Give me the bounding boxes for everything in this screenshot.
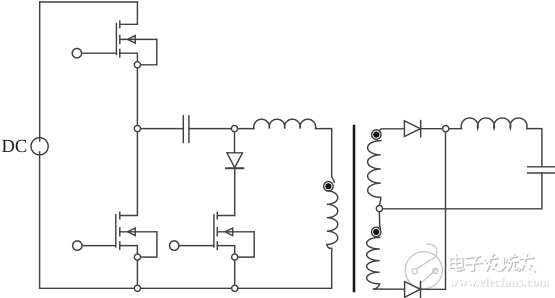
transistor Q1 (high-side MOSFET) <box>72 2 157 65</box>
lower winding humps <box>367 237 380 289</box>
Q2 gate plate <box>115 215 117 247</box>
Q2 source wire to bottom rail <box>136 260 138 285</box>
wire half-bridge node to capacitor C1 <box>141 128 184 130</box>
upper winding humps <box>368 141 381 206</box>
svg-text:www.elecfans.com: www.elecfans.com <box>449 275 550 289</box>
Q2 drain wire from half-bridge node <box>120 131 138 215</box>
transformer T1 primary winding <box>324 182 338 289</box>
inductor L2 (output filter) <box>461 118 527 129</box>
wire capacitor C1 to node B <box>189 128 232 130</box>
Q1 channel segments <box>119 21 121 28</box>
Q2 gate terminal circle <box>73 241 82 250</box>
wire inductor L2 to capacitor C2 <box>527 129 542 167</box>
Q3 source lead <box>217 246 234 254</box>
wire capacitor C2 to center tap return <box>383 173 542 209</box>
Q2 gate lead <box>82 245 116 247</box>
node half-bridge midpoint (Q1 source junction) <box>134 62 140 68</box>
wire diode D1 to output node <box>421 128 443 130</box>
wire bottom rail <box>40 287 331 289</box>
Q2 source lead <box>120 246 138 254</box>
Q3 channel segments <box>216 212 218 219</box>
transformer T1 secondary upper polarity dot <box>373 132 379 138</box>
Q1 gate terminal circle <box>72 49 81 58</box>
wire Q1 source to half-bridge node <box>136 68 138 125</box>
Q3 gate lead <box>179 245 214 247</box>
transformer T1 secondary lower polarity dot <box>373 229 379 235</box>
capacitor C2 plates <box>528 166 555 168</box>
wire primary bottom to bottom rail <box>331 249 333 289</box>
transistor Q2 (low-side MOSFET left) <box>73 131 157 285</box>
node B right of capacitor C1 <box>231 126 237 132</box>
Q3 gate terminal circle <box>170 241 179 250</box>
primary winding humps <box>327 191 338 249</box>
diode D2 cathode bar <box>420 281 422 297</box>
node Q3 source junction <box>232 254 238 260</box>
node Q3 bottom rail junction <box>232 285 238 291</box>
Q1 body lead with arrow <box>120 38 157 40</box>
Q1 gate lead <box>82 52 117 54</box>
Q1 body return wire to source <box>141 39 157 64</box>
Q3 drain lead <box>217 215 234 217</box>
diode D3 cathode bar <box>226 167 243 169</box>
capacitor C1 plates <box>182 116 184 143</box>
diode D2 (output rectifier bottom) <box>405 282 421 298</box>
transformer T1 primary polarity dot <box>325 183 331 189</box>
transistor Q3 (low-side MOSFET right) <box>170 212 255 285</box>
wire center tap to lower winding <box>379 212 380 230</box>
Q1 gate plate <box>115 24 117 55</box>
inductor L1 (resonant inductor) <box>254 119 316 128</box>
diode D1 (output rectifier top) <box>404 121 420 137</box>
Q3 body return wire to source <box>238 232 254 257</box>
transformer T1 secondary upper winding <box>368 129 405 206</box>
wire inductor L1 to transformer primary <box>316 129 335 183</box>
watermark logo circle <box>405 244 442 288</box>
Q3 body lead with arrow <box>217 231 254 233</box>
Q2 body return wire to source <box>141 232 157 257</box>
wire top rail <box>40 1 138 3</box>
node output (D1 cathode junction) <box>443 126 449 132</box>
diode D3 triangle <box>227 153 243 168</box>
node transformer center tap <box>376 206 382 212</box>
wire lower winding to diode D2 <box>374 288 405 290</box>
diode D3 (clamp diode) wire from node B <box>234 131 236 152</box>
wire node B to inductor L1 <box>238 128 254 130</box>
diode D1 cathode bar <box>420 121 422 137</box>
wire diode D3 to Q3 drain <box>234 168 236 215</box>
wire left side from DC source to bottom rail <box>39 152 41 288</box>
wire output node to inductor L2 <box>449 128 462 130</box>
Q2 channel segments <box>119 212 121 219</box>
secondary top wire with entry curl <box>380 129 405 132</box>
Q3 source wire to bottom rail <box>234 260 236 285</box>
wire diode D2 branch (cathode riser to output node) <box>421 132 446 289</box>
node Q2 source junction <box>134 254 140 260</box>
Q3 gate plate <box>213 215 215 247</box>
Q2 body lead with arrow <box>120 231 157 233</box>
transformer T1 secondary lower winding <box>367 212 405 289</box>
transformer T1 core bar <box>353 126 356 291</box>
wire left side from top rail to DC source <box>39 2 41 141</box>
watermark text www.elecfans.com <box>449 275 551 290</box>
Q1 source lead <box>120 53 138 61</box>
Q1 drain wire from top rail <box>120 2 138 24</box>
watermark text dian zi fa shao you (hand-drawn strokes) <box>450 254 536 272</box>
node left of capacitor C1 <box>134 126 140 132</box>
node Q2 bottom rail junction <box>134 285 140 291</box>
svg-text:DC: DC <box>2 137 28 157</box>
DC source V1 circle <box>31 138 48 155</box>
primary entry curl <box>324 182 333 191</box>
